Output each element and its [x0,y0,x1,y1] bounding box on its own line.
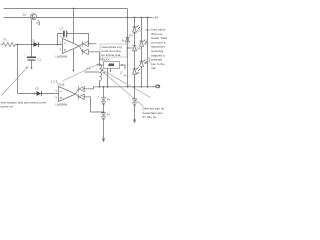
svg-text:RELAY: RELAY [100,58,110,62]
wire mid stub y71 [85,71,100,73]
LED D6 [140,40,148,47]
svg-text:U1:B: U1:B [58,83,65,87]
wire bridge x127-x134 [128,47,133,49]
node rail x103 [103,86,105,88]
node rail x127 [127,86,129,88]
node feedback x57 [57,44,59,46]
annotation arrows bottom-right [102,70,151,98]
wire U1:A power stub top [73,9,75,44]
wire input net y44 [16,44,63,46]
svg-text:D5: D5 [137,47,141,51]
wire top rail V+ [4,8,128,10]
svg-text:5: 5 [56,96,58,100]
arrow down bottom x134 [133,120,136,124]
text mid annotation block [100,44,127,57]
wire led column x141 [141,18,143,87]
node rail2 x147 [147,17,149,19]
wire U1:B apex link [76,89,85,97]
wire U1:A out top [89,43,97,45]
wire relay box bottom pin [107,69,109,87]
node rail x141 [141,86,143,88]
svg-text:+: + [98,96,100,99]
wire Q1 collector down [31,20,33,57]
svg-text:12: 12 [120,71,123,75]
node rail2 x127 [127,17,129,19]
svg-text:9b: 9b [122,39,125,43]
node U1:A lower stub [73,70,75,72]
wire U1:A out bottom to relay [89,52,100,65]
svg-text:D2: D2 [36,87,40,91]
node rail x99 [99,86,101,88]
wire relay right pin elbow [111,65,126,72]
wire feedback loop [58,34,89,45]
svg-text:LM358N: LM358N [56,55,68,59]
svg-text:1 2 3: 1 2 3 [51,80,58,84]
diode U1:A out top [83,41,88,46]
wire left drop x17 [17,45,19,94]
svg-text:C1: C1 [38,58,42,62]
node rail x147 [147,86,149,88]
svg-text:R2: R2 [37,22,41,26]
svg-text:Q1: Q1 [23,13,27,17]
svg-text:46: 46 [137,71,140,75]
battery B3 [132,99,137,105]
svg-text:42: 42 [124,74,127,78]
node rail2 x134 [134,17,136,19]
node rail x134 [134,86,136,88]
wire cap C1 bottom stub [31,61,33,68]
wire U1:A power stub bottom [73,49,75,71]
LED D3 [133,25,141,32]
node junction x31 y44 [31,44,33,46]
diode D1 [34,42,39,47]
battery B2 [101,113,106,119]
diode D2 [34,93,36,95]
svg-text:3: 3 [60,48,62,52]
terminal J1 [155,85,160,89]
svg-text:9V: 9V [107,113,110,117]
wire long bottom rail to terminal [83,87,155,89]
capacitor C2 feedback [64,31,67,37]
battery B1 [101,98,106,104]
wire right column from top rail [127,9,129,87]
relay coil [100,65,102,81]
op-amp U1:A [63,39,80,54]
node junction x17 y44 [17,44,19,46]
node relay right pin [121,64,123,66]
diode U1:A out bottom [83,49,88,54]
svg-text:D1: D1 [32,39,36,43]
wire bottom-left rail [18,93,59,95]
svg-text:canse ter: canse ter [1,105,14,109]
op-amp U1:B [59,87,76,102]
svg-text:9V: 9V [107,98,110,102]
node rail x107 [107,86,109,88]
resistor R1 [1,43,16,47]
arrow down bottom x103 [102,139,105,143]
svg-text:2: 2 [60,41,62,45]
svg-text:R1: R1 [4,38,8,42]
svg-text:+: + [24,54,26,57]
node cap bottom [31,67,33,69]
annotation arrow bottom-left [2,67,28,96]
wire relay left pin [100,64,104,66]
svg-text:D3: D3 [137,29,141,33]
node feedback x88 [88,43,90,45]
wire battery column x134 lower [134,87,136,120]
svg-text:+9V: +9V [153,16,160,20]
svg-text:42: 42 [144,61,147,65]
svg-text:C2: C2 [60,27,64,31]
wire led column x134 [134,18,136,87]
pointer line to LED [145,29,152,31]
wire coil bottom [99,81,101,87]
LED D8 [133,67,141,74]
svg-text:6: 6 [56,89,58,93]
text right column note [151,28,167,71]
wire U1:B lower out elbow [83,97,104,112]
diode D5 [133,46,137,51]
node top rail x73 [73,8,75,10]
svg-text:27 d3+ se: 27 d3+ se [143,115,157,119]
svg-text:+: + [129,97,131,100]
text bottom-right note [143,107,165,120]
node coil top [99,64,101,66]
svg-text:LM358N: LM358N [56,103,68,107]
diode U1:B out top [79,86,84,91]
svg-text:be interte feat: be interte feat [102,53,121,57]
relay box [104,62,120,69]
wire opamp apex link [80,44,83,52]
svg-text:use: use [151,66,156,70]
node x134 y33 [134,33,136,35]
wire battery column x103 [103,87,105,139]
wire column x147 [147,18,149,87]
node battery join [103,111,105,113]
LED D7 [140,60,148,67]
diode D4 horizontal [126,37,130,42]
diode U1:B out bottom [79,94,84,99]
transistor Q1 [30,14,39,26]
capacitor C1 electrolytic [27,57,36,60]
svg-text:D4: D4 [129,34,133,38]
node rail2 x141 [141,17,143,19]
wire second rail [4,17,153,19]
